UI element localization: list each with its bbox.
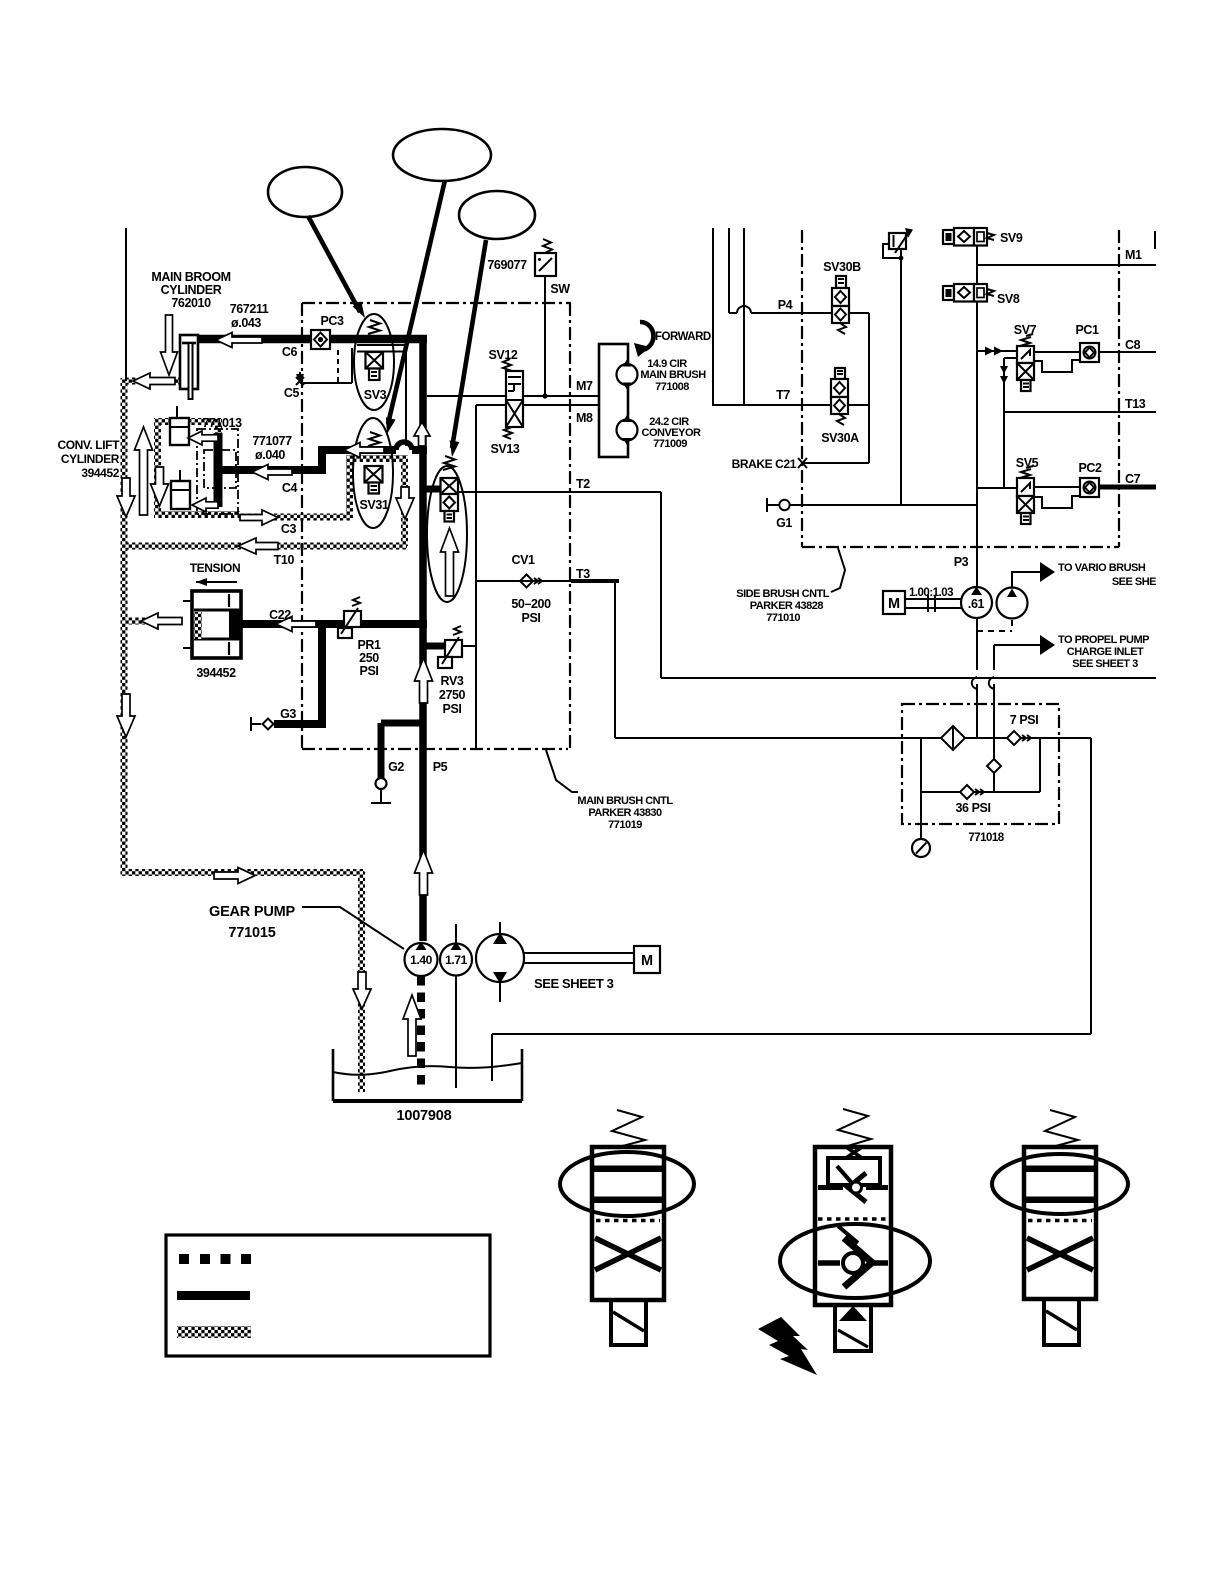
svg-text:M8: M8 [576,411,593,425]
svg-text:T2: T2 [576,477,590,491]
svg-text:PARKER 43828: PARKER 43828 [750,600,824,612]
svg-text:PC2: PC2 [1078,461,1102,475]
svg-text:SV8: SV8 [997,292,1020,306]
svg-text:SV12: SV12 [489,348,518,362]
svg-text:SV3: SV3 [364,388,387,402]
svg-text:C4: C4 [282,481,298,495]
svg-text:CHARGE INLET: CHARGE INLET [1067,646,1144,658]
svg-text:PSI: PSI [522,611,541,625]
svg-text:250: 250 [359,651,379,665]
svg-text:CONV. LIFT: CONV. LIFT [57,438,120,452]
svg-text:MAIN BRUSH: MAIN BRUSH [640,369,706,381]
svg-text:RV3: RV3 [441,674,464,688]
svg-text:P5: P5 [433,760,448,774]
svg-text:ø.040: ø.040 [255,448,285,462]
svg-text:C22: C22 [269,608,291,622]
svg-text:1007908: 1007908 [396,1108,451,1124]
svg-text:762010: 762010 [171,296,211,310]
svg-text:M1: M1 [1125,248,1142,262]
svg-text:TO VARIO BRUSH: TO VARIO BRUSH [1058,562,1146,574]
svg-text:P4: P4 [778,298,793,312]
svg-text:PR1: PR1 [357,638,381,652]
svg-text:1.00:1.03: 1.00:1.03 [909,587,953,599]
svg-text:1.71: 1.71 [445,953,467,967]
svg-text:SV30B: SV30B [823,260,861,274]
svg-text:SW: SW [550,282,570,296]
svg-text:2750: 2750 [439,688,466,702]
svg-text:771015: 771015 [228,925,275,941]
svg-text:M: M [888,596,900,612]
svg-text:ø.043: ø.043 [231,316,261,330]
svg-text:771013: 771013 [202,416,242,430]
svg-text:771019: 771019 [608,819,642,831]
svg-text:PARKER 43830: PARKER 43830 [588,807,662,819]
svg-text:T13: T13 [1125,397,1146,411]
svg-text:M7: M7 [576,379,593,393]
svg-text:SV13: SV13 [491,442,520,456]
svg-text:PSI: PSI [360,664,379,678]
svg-text:M: M [641,953,653,969]
svg-text:C6: C6 [282,345,298,359]
svg-text:T3: T3 [576,567,590,581]
svg-text:C5: C5 [284,386,300,400]
svg-text:T7: T7 [776,388,790,402]
svg-text:771018: 771018 [968,832,1004,844]
svg-text:G2: G2 [388,760,404,774]
svg-text:G3: G3 [280,707,296,721]
svg-text:MAIN BROOM: MAIN BROOM [151,270,230,284]
svg-text:BRAKE C21: BRAKE C21 [732,457,797,471]
svg-text:C8: C8 [1125,338,1141,352]
svg-text:1.40: 1.40 [410,953,432,967]
svg-text:36 PSI: 36 PSI [955,801,990,815]
svg-text:771008: 771008 [655,381,689,393]
svg-text:PC3: PC3 [320,314,344,328]
svg-text:767211: 767211 [230,302,269,316]
svg-text:SV7: SV7 [1014,323,1037,337]
svg-text:MAIN BRUSH CNTL: MAIN BRUSH CNTL [577,795,673,807]
svg-text:CV1: CV1 [511,553,535,567]
svg-text:769077: 769077 [487,258,527,272]
svg-text:TENSION: TENSION [190,561,241,575]
svg-text:TO PROPEL PUMP: TO PROPEL PUMP [1058,634,1149,646]
svg-text:SV9: SV9 [1000,231,1023,245]
svg-text:T10: T10 [274,553,295,567]
svg-text:CYLINDER: CYLINDER [61,452,120,466]
svg-text:CYLINDER: CYLINDER [161,283,222,297]
svg-text:394452: 394452 [81,466,119,480]
svg-text:771010: 771010 [766,612,800,624]
svg-text:C7: C7 [1125,472,1141,486]
svg-text:SIDE BRUSH CNTL: SIDE BRUSH CNTL [736,588,830,600]
svg-text:GEAR PUMP: GEAR PUMP [209,904,296,920]
svg-text:C3: C3 [281,522,297,536]
svg-text:P3: P3 [954,555,969,569]
svg-text:394452: 394452 [196,666,236,680]
svg-text:FORWARD: FORWARD [655,331,711,343]
svg-text:771077: 771077 [252,434,292,448]
svg-text:SV31: SV31 [360,498,389,512]
svg-text:SEE SHE: SEE SHE [1112,576,1156,588]
svg-text:SEE SHEET 3: SEE SHEET 3 [534,976,614,991]
svg-text:PSI: PSI [443,702,462,716]
svg-text:7 PSI: 7 PSI [1010,713,1039,727]
svg-text:G1: G1 [776,516,792,530]
svg-text:771009: 771009 [653,438,687,450]
svg-text:50–200: 50–200 [511,597,551,611]
svg-text:SV30A: SV30A [821,431,859,445]
svg-text:SV5: SV5 [1016,456,1039,470]
svg-text:PC1: PC1 [1075,323,1099,337]
svg-text:SEE SHEET 3: SEE SHEET 3 [1072,658,1138,670]
svg-text:.61: .61 [968,597,985,611]
